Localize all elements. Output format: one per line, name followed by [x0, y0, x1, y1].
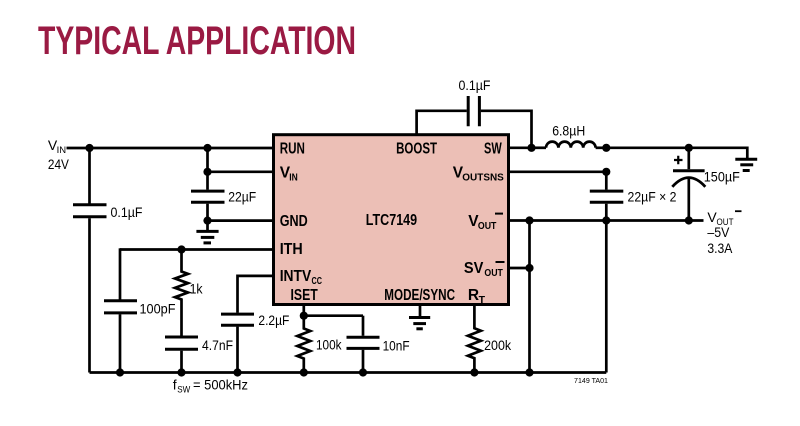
- IC U1 LTC7149 body: [274, 135, 509, 305]
- svg-text:INTV: INTV: [280, 268, 312, 285]
- svg-text:0.1µF: 0.1µF: [459, 77, 491, 93]
- capacitor 2.2uF: [221, 276, 289, 373]
- svg-text:RUN: RUN: [280, 140, 305, 157]
- node VOUT- output labels: [707, 209, 741, 256]
- svg-text:IN: IN: [289, 172, 298, 184]
- svg-text:7149 TA01: 7149 TA01: [574, 378, 608, 385]
- svg-text:T: T: [479, 294, 486, 306]
- capacitor 10nF: [347, 316, 410, 373]
- svg-text:1k: 1k: [190, 281, 204, 297]
- svg-text:10nF: 10nF: [383, 338, 410, 354]
- junction rail 2.2uF: [233, 368, 241, 376]
- svg-text:ITH: ITH: [280, 241, 303, 258]
- pin VIN: [280, 164, 298, 183]
- inductor L1 6.8uH: [532, 123, 607, 148]
- bottom rail: [90, 371, 607, 374]
- junction SW/boost: [527, 144, 535, 152]
- svg-text:ISET: ISET: [291, 287, 319, 304]
- wire top rail to ground: [606, 148, 747, 159]
- capacitor boost 0.1uF: [417, 77, 532, 148]
- svg-text:MODE/SYNC: MODE/SYNC: [384, 287, 455, 304]
- wire VOUT-: [509, 219, 704, 222]
- capacitor 22uF x 2: [590, 172, 677, 221]
- resistor 1k: [175, 250, 203, 337]
- svg-text:OUT: OUT: [478, 220, 497, 232]
- wire VIN pin: [208, 170, 274, 173]
- junction rail 100pF: [116, 368, 124, 376]
- capacitor 0.1uF input: [73, 148, 143, 373]
- svg-text:100k: 100k: [316, 337, 342, 353]
- svg-text:24V: 24V: [48, 156, 70, 172]
- junction SVOUT-/vertical: [525, 264, 533, 272]
- svg-text:f: f: [173, 377, 177, 393]
- junction 22uF bottom / GND pin wire: [203, 217, 211, 225]
- pin VOUT-: [468, 213, 503, 232]
- svg-text:LTC7149: LTC7149: [366, 212, 418, 229]
- svg-text:SW: SW: [484, 140, 502, 157]
- svg-text:4.7nF: 4.7nF: [202, 337, 233, 353]
- junction rail 4.7nF: [177, 368, 185, 376]
- junction ISET: [300, 312, 308, 320]
- label fSW = 500kHz: [173, 377, 248, 396]
- pin VOUTSNS: [453, 164, 504, 183]
- junction L1 out: [602, 144, 610, 152]
- svg-text:150µF: 150µF: [704, 169, 740, 185]
- svg-text:0.1µF: 0.1µF: [111, 204, 143, 220]
- wire GND pin: [208, 219, 274, 222]
- svg-text:BOOST: BOOST: [396, 140, 437, 157]
- svg-text:OUT: OUT: [484, 267, 503, 279]
- ground output right: [735, 159, 757, 170]
- junction VOUT-/SVOUT vertical: [525, 216, 533, 224]
- svg-text:–5V: –5V: [707, 224, 730, 240]
- junction 150uF top: [685, 144, 693, 152]
- wire SVOUT vertical: [528, 221, 531, 373]
- ground 22uF: [196, 221, 218, 243]
- svg-text:2.2µF: 2.2µF: [258, 312, 289, 328]
- svg-text:3.3A: 3.3A: [707, 240, 733, 256]
- junction rail 100k: [300, 368, 308, 376]
- svg-text:CC: CC: [312, 275, 323, 287]
- junction VOUT-/22uFx2: [602, 216, 610, 224]
- junction ITH/1k: [177, 245, 185, 253]
- junction rail 10nF: [359, 368, 367, 376]
- capacitor 4.7nF: [165, 337, 233, 373]
- svg-text:22µF × 2: 22µF × 2: [628, 189, 677, 205]
- pin INTVCC: [280, 268, 323, 287]
- wire SW: [509, 146, 532, 149]
- capacitor 100pF: [104, 248, 176, 372]
- svg-text:100pF: 100pF: [140, 301, 176, 317]
- wire ISET stub: [302, 305, 305, 316]
- junction VOUT-/150uF: [685, 216, 693, 224]
- wire ISET to 10nF: [304, 314, 363, 317]
- resistor 100k: [297, 316, 342, 373]
- junction VIN/C1: [85, 144, 93, 152]
- svg-text:IN: IN: [57, 145, 67, 156]
- junction 22uF top / VIN pin wire: [203, 168, 211, 176]
- svg-text:TYPICAL APPLICATION: TYPICAL APPLICATION: [38, 19, 356, 63]
- wire SVOUT-: [509, 267, 530, 270]
- svg-text:200k: 200k: [484, 337, 512, 353]
- junction VOUTSNS: [602, 168, 610, 176]
- junction VIN/22uF: [203, 144, 211, 152]
- svg-text:= 500kHz: = 500kHz: [193, 377, 248, 393]
- wire VOUTSNS: [509, 170, 607, 173]
- svg-text:6.8µH: 6.8µH: [552, 123, 585, 139]
- pin RT: [468, 287, 486, 306]
- svg-text:OUTSNS: OUTSNS: [462, 172, 504, 184]
- junction rail SVOUT vertical: [525, 368, 533, 376]
- svg-text:SV: SV: [464, 260, 484, 277]
- svg-text:22µF: 22µF: [228, 189, 256, 205]
- svg-text:R: R: [468, 287, 479, 304]
- svg-text:SW: SW: [177, 384, 190, 395]
- wire ITH: [120, 248, 274, 251]
- pin SVOUT-: [464, 260, 505, 279]
- svg-text:GND: GND: [280, 213, 308, 230]
- node VIN input label: [48, 137, 70, 172]
- junction rail 200k: [470, 368, 478, 376]
- ground MODE/SYNC: [409, 305, 430, 329]
- capacitor 22uF: [191, 148, 256, 221]
- wire VIN rail: [67, 147, 274, 150]
- capacitor 150uF polarized: [672, 148, 740, 221]
- resistor 200k: [468, 305, 512, 373]
- wire 22uFx2 down to bottom rail: [605, 221, 608, 373]
